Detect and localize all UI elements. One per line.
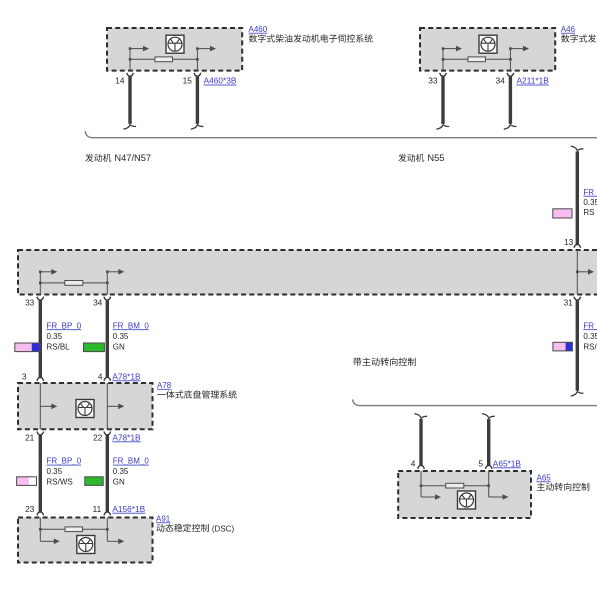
svg-text:4: 4 (98, 371, 103, 381)
steering wheel symbol A91 (77, 536, 95, 554)
svg-text:RS/BL: RS/BL (583, 342, 597, 351)
svg-text:FR_BM_0: FR_BM_0 (113, 457, 150, 466)
svg-text:4: 4 (411, 458, 416, 468)
control unit A65 box (398, 471, 531, 518)
junction dot wire 13 (576, 271, 579, 274)
svg-text:FR_BP_0: FR_BP_0 (583, 321, 597, 330)
steering wheel symbol (166, 35, 184, 53)
resistor element (468, 57, 486, 62)
wire stub pin left inside box (442, 49, 444, 71)
stub wire 34 (106, 272, 108, 295)
pin 33 fork bottom (37, 297, 44, 301)
svg-text:0.35: 0.35 (113, 467, 129, 476)
junction dots (442, 58, 445, 61)
colour swatch RS/BL (15, 343, 40, 352)
svg-text:0.35: 0.35 (47, 332, 63, 341)
pin 4 fork A65 (418, 465, 425, 469)
A91 link line (40, 528, 107, 530)
hook end of wire 14 (123, 122, 136, 129)
wire from pin 33 (441, 76, 444, 124)
arrow A78 left (40, 404, 57, 410)
svg-text:11: 11 (93, 504, 102, 514)
A91 resistor element (65, 527, 83, 532)
hook start wire to pin 4 (414, 414, 427, 421)
steering wheel symbol A65 (458, 491, 476, 509)
svg-text:31: 31 (564, 298, 574, 308)
svg-text:15: 15 (183, 76, 193, 86)
wire through A78 right (106, 383, 108, 429)
label A65 description (537, 483, 589, 491)
wire into A91 right (106, 518, 108, 542)
arrow out right (197, 46, 216, 52)
pin 3 fork (37, 377, 44, 381)
label engine N47/N57 (85, 154, 111, 162)
pin 13 fork (574, 244, 581, 248)
wire from pin 15 (196, 76, 199, 124)
svg-text:RS/WS: RS/WS (47, 478, 73, 487)
pin 4 fork (104, 377, 111, 381)
svg-text:34: 34 (93, 298, 103, 308)
svg-text:21: 21 (25, 432, 35, 442)
svg-text:RS/BL: RS/BL (47, 342, 71, 351)
junction dots A65 (420, 484, 423, 487)
arrow splice left (40, 269, 57, 275)
svg-text:N55: N55 (427, 153, 444, 163)
svg-text:A78: A78 (157, 381, 172, 390)
colour swatch RS/BL right (553, 342, 573, 351)
svg-text:A460*3B: A460*3B (204, 76, 237, 86)
A65 link line (421, 485, 489, 487)
splice resistor element (65, 281, 83, 286)
label with active steering (353, 358, 416, 366)
hook start of wire 13 (571, 146, 584, 153)
hook end of wire 31 (571, 389, 584, 396)
splice link line (40, 282, 107, 284)
junction dots A91 (39, 528, 42, 531)
svg-text:A91: A91 (156, 514, 171, 523)
svg-text:33: 33 (428, 76, 438, 86)
svg-text:14: 14 (115, 76, 125, 86)
svg-text:13: 13 (564, 237, 574, 247)
wire to pin 5 (487, 419, 490, 466)
arrow out left (130, 46, 149, 52)
steering group bracket (353, 399, 597, 405)
svg-text:A156*1B: A156*1B (112, 504, 145, 514)
resistor element (155, 57, 173, 62)
arrow A65 left (421, 494, 441, 500)
svg-text:5: 5 (478, 458, 483, 468)
steering wheel symbol (479, 35, 497, 53)
wire to pin 4 (419, 419, 422, 466)
svg-text:3: 3 (22, 371, 27, 381)
wire from pin 34 (509, 76, 512, 124)
control unit A460 (DDE) box (107, 28, 242, 71)
svg-text:0.35: 0.35 (47, 467, 63, 476)
pin 21 fork (37, 432, 44, 436)
svg-text:33: 33 (25, 298, 35, 308)
label A91 description (157, 524, 209, 532)
pin 23 fork (37, 512, 44, 516)
hook end of wire 15 (191, 122, 204, 129)
A65 resistor element (446, 483, 464, 488)
internal link line (130, 58, 197, 60)
svg-text:FR_BM_0: FR_BM_0 (113, 321, 150, 330)
arrow A65 right (489, 494, 509, 500)
wire FR_BM_0 lower (106, 434, 109, 512)
arrow splice far right (577, 269, 594, 275)
hook end of wire 34 (504, 122, 517, 129)
wire 13 through box (576, 250, 578, 295)
svg-text:0.35: 0.35 (583, 198, 597, 207)
arrow A78 right (107, 404, 124, 410)
arrow A91 right (107, 539, 124, 545)
wire through A78 left (39, 383, 41, 429)
arrow out right (510, 46, 529, 52)
pin 5 fork A65 (485, 465, 492, 469)
hook start wire to pin 5 (482, 414, 495, 421)
svg-text:34: 34 (496, 76, 506, 86)
label A78 description (157, 390, 236, 398)
arrow out left (443, 46, 462, 52)
svg-text:FR_BP_0: FR_BP_0 (583, 188, 597, 197)
arrow splice right (107, 269, 124, 275)
wire 13 (576, 152, 579, 246)
pin 34 fork (507, 73, 514, 77)
junction dots (129, 58, 132, 61)
steering wheel symbol A78 (76, 400, 94, 418)
wire FR_BM_0 upper (106, 300, 109, 379)
wire into A65 left (420, 471, 422, 497)
wire stub pin right inside box (196, 49, 198, 71)
arrow A91 left (40, 539, 60, 545)
wire stub pin right inside box (509, 49, 511, 71)
svg-text:A78*1B: A78*1B (112, 371, 141, 381)
label A460 description (249, 34, 373, 42)
left stub wire 33 (39, 272, 41, 295)
pin 22 fork (104, 432, 111, 436)
engine group bracket (85, 131, 597, 138)
label A46 description (561, 34, 597, 42)
svg-text:A46: A46 (561, 25, 576, 34)
svg-text:22: 22 (93, 432, 103, 442)
pin 31 fork bottom (574, 297, 581, 301)
svg-text:A65: A65 (537, 473, 552, 482)
junction dots splice (39, 282, 42, 285)
svg-text:GN: GN (113, 342, 125, 351)
wire FR_BP_0 lower (39, 434, 42, 512)
svg-text:A460: A460 (249, 25, 268, 34)
svg-text:23: 23 (25, 504, 35, 514)
colour swatch RS pink (553, 209, 572, 218)
control unit A91 (DSC) box (18, 518, 153, 563)
svg-text:A65*1B: A65*1B (493, 458, 522, 468)
pin 34 fork bottom (104, 297, 111, 301)
colour swatch RS/WS (17, 477, 37, 486)
svg-text:FR_BP_0: FR_BP_0 (47, 321, 82, 330)
wire from pin 14 (128, 76, 131, 124)
colour swatch GN (84, 343, 105, 352)
colour swatch GN lower (85, 477, 103, 486)
label engine N55 (398, 154, 424, 162)
splice distribution box (18, 250, 597, 295)
internal link line (443, 58, 510, 60)
svg-text:FR_BP_0: FR_BP_0 (47, 457, 82, 466)
svg-text:RS: RS (583, 208, 594, 217)
pin 15 fork (194, 73, 201, 77)
pin 14 fork (127, 73, 134, 77)
wire into A65 right (488, 471, 490, 497)
control unit A78 box (18, 383, 153, 429)
wire stub pin left inside box (129, 49, 131, 71)
svg-text:GN: GN (113, 478, 125, 487)
wire FR_BP_0 upper (39, 300, 42, 379)
wire 31 down (576, 300, 579, 391)
svg-text:A211*1B: A211*1B (517, 76, 550, 86)
pin 33 fork (440, 73, 447, 77)
svg-text:A78*1B: A78*1B (112, 432, 141, 442)
control unit A46 (DME) box (420, 28, 555, 71)
wire into A91 left (39, 518, 41, 542)
svg-text:(DSC): (DSC) (212, 524, 235, 533)
svg-text:N47/N57: N47/N57 (114, 153, 151, 163)
svg-text:0.35: 0.35 (583, 332, 597, 341)
pin 11 fork (104, 512, 111, 516)
svg-text:0.35: 0.35 (113, 332, 129, 341)
hook end of wire 33 (436, 122, 449, 129)
